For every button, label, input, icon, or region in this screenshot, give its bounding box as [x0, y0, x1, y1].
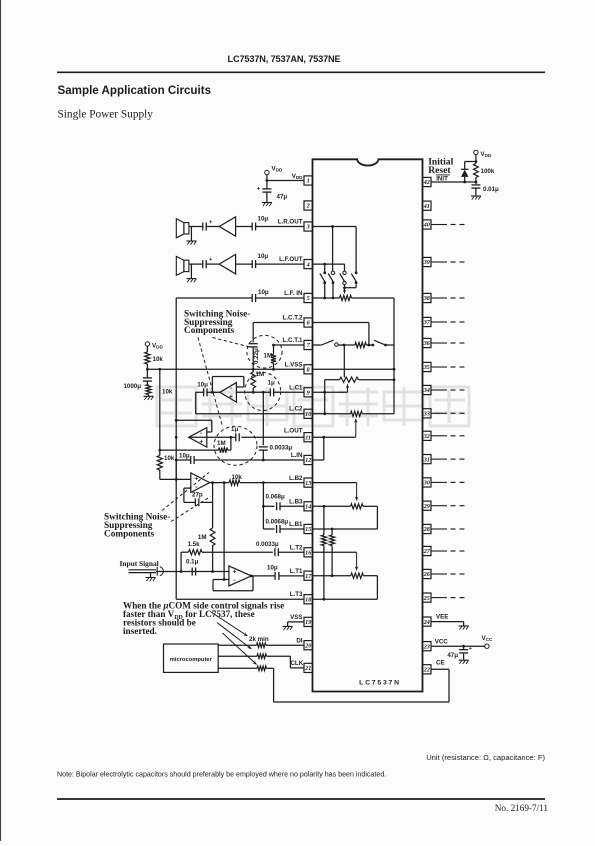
- svg-text:L.T2: L.T2: [290, 544, 303, 551]
- svg-text:30: 30: [423, 480, 430, 487]
- svg-text:0.01μ: 0.01μ: [483, 186, 499, 193]
- svg-text:VDD: VDD: [272, 166, 283, 173]
- svg-text:1M: 1M: [256, 371, 265, 378]
- svg-text:10μ: 10μ: [258, 253, 269, 260]
- svg-text:13: 13: [305, 480, 311, 487]
- svg-text:1M: 1M: [264, 353, 273, 360]
- svg-text:19: 19: [305, 619, 311, 626]
- svg-text:No. 2169-7/11: No. 2169-7/11: [495, 803, 549, 813]
- svg-text:17: 17: [305, 573, 312, 580]
- svg-text:26: 26: [423, 571, 431, 578]
- svg-text:28: 28: [423, 526, 430, 533]
- svg-text:36: 36: [423, 340, 431, 347]
- svg-text:1M: 1M: [217, 440, 226, 447]
- svg-text:L.C.T.1: L.C.T.1: [283, 337, 303, 344]
- svg-text:L.F.OUT: L.F.OUT: [279, 256, 303, 263]
- svg-text:Single Power Supply: Single Power Supply: [58, 109, 154, 121]
- svg-text:1μ: 1μ: [268, 380, 275, 387]
- svg-text:L.B1: L.B1: [289, 521, 303, 528]
- svg-text:10μ: 10μ: [258, 289, 269, 296]
- svg-text:L.F. IN: L.F. IN: [284, 290, 303, 297]
- svg-text:10: 10: [305, 411, 311, 418]
- svg-text:Sample Application Circuits: Sample Application Circuits: [58, 84, 212, 97]
- svg-text:15: 15: [305, 526, 311, 533]
- svg-text:-: -: [195, 484, 197, 491]
- svg-text:1M: 1M: [198, 534, 207, 541]
- svg-text:29: 29: [423, 503, 430, 510]
- svg-text:1: 1: [307, 178, 310, 185]
- svg-text:47μ: 47μ: [447, 652, 458, 659]
- svg-text:VSS: VSS: [290, 614, 302, 621]
- svg-text:9: 9: [307, 390, 310, 397]
- svg-text:24: 24: [423, 619, 430, 626]
- svg-text:23: 23: [423, 643, 430, 650]
- svg-text:inserted.: inserted.: [123, 626, 157, 636]
- svg-text:41: 41: [423, 203, 430, 210]
- svg-text:25: 25: [423, 595, 430, 602]
- svg-text:1000μ: 1000μ: [123, 383, 141, 390]
- svg-text:LC7537N, 7537AN, 7537NE: LC7537N, 7537AN, 7537NE: [228, 54, 341, 64]
- svg-text:VDD: VDD: [152, 343, 163, 350]
- svg-text:microcomputer: microcomputer: [170, 657, 213, 663]
- svg-text:18: 18: [305, 596, 311, 603]
- svg-text:L.C.T.2: L.C.T.2: [283, 315, 303, 322]
- svg-text:2k min: 2k min: [249, 636, 269, 643]
- svg-text:10k: 10k: [162, 389, 173, 396]
- svg-text:L.C1: L.C1: [289, 384, 303, 391]
- svg-text:47μ: 47μ: [277, 194, 288, 201]
- svg-text:Input Signal: Input Signal: [120, 559, 159, 568]
- svg-text:27p: 27p: [192, 492, 203, 499]
- svg-text:10k: 10k: [153, 356, 164, 363]
- svg-text:33: 33: [423, 411, 430, 418]
- svg-text:CE: CE: [436, 660, 445, 667]
- svg-text:38: 38: [423, 295, 430, 302]
- svg-text:37: 37: [423, 319, 431, 326]
- svg-text:39: 39: [423, 259, 430, 266]
- svg-text:Reset: Reset: [428, 165, 451, 176]
- svg-text:VCC: VCC: [435, 638, 449, 645]
- svg-text:10μ: 10μ: [179, 452, 190, 459]
- svg-text:2: 2: [306, 203, 310, 210]
- svg-text:20: 20: [304, 642, 311, 649]
- svg-text:11: 11: [305, 434, 311, 441]
- svg-text:100k: 100k: [481, 168, 495, 175]
- svg-text:+: +: [257, 187, 261, 193]
- svg-text:LC7537N: LC7537N: [359, 680, 401, 687]
- svg-text:L.IN: L.IN: [291, 452, 303, 459]
- svg-text:VDD: VDD: [481, 151, 492, 158]
- svg-text:0.0033μ: 0.0033μ: [270, 444, 293, 451]
- svg-text:14: 14: [305, 504, 311, 511]
- svg-text:L.VSS: L.VSS: [285, 361, 303, 368]
- svg-text:34: 34: [423, 387, 430, 394]
- svg-text:1μ: 1μ: [231, 426, 238, 433]
- svg-text:VDD: VDD: [292, 173, 303, 180]
- svg-text:VCC: VCC: [482, 635, 493, 642]
- svg-text:12: 12: [305, 457, 311, 464]
- svg-text:10k: 10k: [232, 474, 243, 481]
- svg-text:0.068μ: 0.068μ: [266, 494, 285, 501]
- svg-text:-: -: [230, 385, 232, 392]
- svg-text:35: 35: [423, 364, 430, 371]
- svg-text:42: 42: [423, 179, 430, 186]
- svg-text:8: 8: [307, 367, 310, 374]
- svg-text:16: 16: [305, 550, 312, 557]
- svg-text:4: 4: [306, 261, 310, 268]
- svg-text:+: +: [233, 569, 237, 576]
- svg-text:DI: DI: [296, 638, 302, 645]
- svg-text:0.22μ: 0.22μ: [253, 348, 260, 364]
- svg-text:Note: Bipolar electrolytic cap: Note: Bipolar electrolytic capacitors sh…: [57, 771, 386, 779]
- svg-text:Components: Components: [184, 326, 234, 336]
- svg-text:+: +: [194, 475, 198, 482]
- svg-text:-: -: [233, 577, 235, 584]
- svg-text:0.1μ: 0.1μ: [186, 559, 199, 566]
- svg-text:+: +: [199, 439, 203, 446]
- svg-text:40: 40: [423, 222, 430, 229]
- svg-text:L.R.OUT: L.R.OUT: [278, 219, 303, 226]
- svg-text:0.0033μ: 0.0033μ: [256, 541, 279, 548]
- svg-text:0.0068μ: 0.0068μ: [266, 518, 289, 525]
- svg-text:VEE: VEE: [436, 614, 448, 621]
- svg-text:31: 31: [423, 456, 430, 463]
- svg-text:27: 27: [423, 548, 431, 555]
- svg-text:10μ: 10μ: [258, 216, 269, 223]
- svg-text:L.C2: L.C2: [289, 406, 303, 413]
- svg-text:3: 3: [306, 224, 310, 231]
- svg-text:L.T3: L.T3: [290, 591, 303, 598]
- svg-text:22: 22: [423, 667, 430, 674]
- svg-text:10k: 10k: [164, 455, 175, 462]
- svg-text:CLK: CLK: [290, 660, 303, 667]
- svg-text:Components: Components: [104, 530, 154, 540]
- svg-text:21: 21: [304, 665, 311, 672]
- svg-text:10μ: 10μ: [267, 565, 278, 572]
- svg-text:-: -: [200, 430, 202, 437]
- svg-text:32: 32: [423, 433, 430, 440]
- svg-text:1.5k: 1.5k: [188, 541, 201, 548]
- svg-text:L.B3: L.B3: [289, 498, 303, 505]
- svg-text:L.T1: L.T1: [290, 568, 303, 575]
- svg-text:5: 5: [307, 295, 310, 302]
- svg-text:L.B2: L.B2: [289, 475, 303, 482]
- svg-text:10μ: 10μ: [197, 382, 208, 389]
- svg-text:Unit (resistance: Ω, capacitan: Unit (resistance: Ω, capacitance: F): [426, 753, 545, 762]
- svg-text:+: +: [229, 394, 233, 401]
- svg-text:L.OUT: L.OUT: [284, 428, 303, 435]
